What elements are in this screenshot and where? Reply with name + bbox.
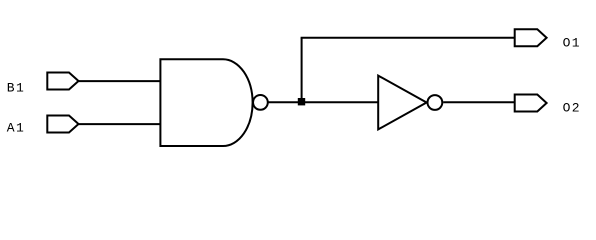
inverter triangle (378, 76, 426, 130)
output tag O2 (515, 95, 547, 112)
inverter output bubble (428, 95, 443, 110)
wire A1 to NAND (79, 123, 161, 125)
input tag A1 (47, 116, 78, 133)
input tag B1 (47, 73, 78, 90)
svg-text:A1: A1 (7, 121, 25, 136)
svg-text:O1: O1 (563, 36, 581, 51)
wire inverter to O2 (443, 101, 515, 103)
wire horizontal to O1 (301, 37, 515, 39)
NAND gate body (160, 59, 252, 146)
wire junction vertical branch (301, 38, 303, 103)
NAND output bubble (253, 95, 268, 110)
wire B1 to NAND (79, 80, 161, 82)
junction node (298, 98, 305, 105)
wire NAND output to inverter input (268, 101, 378, 103)
svg-text:B1: B1 (7, 81, 25, 96)
output tag O1 (515, 29, 547, 46)
svg-text:O2: O2 (563, 101, 581, 116)
